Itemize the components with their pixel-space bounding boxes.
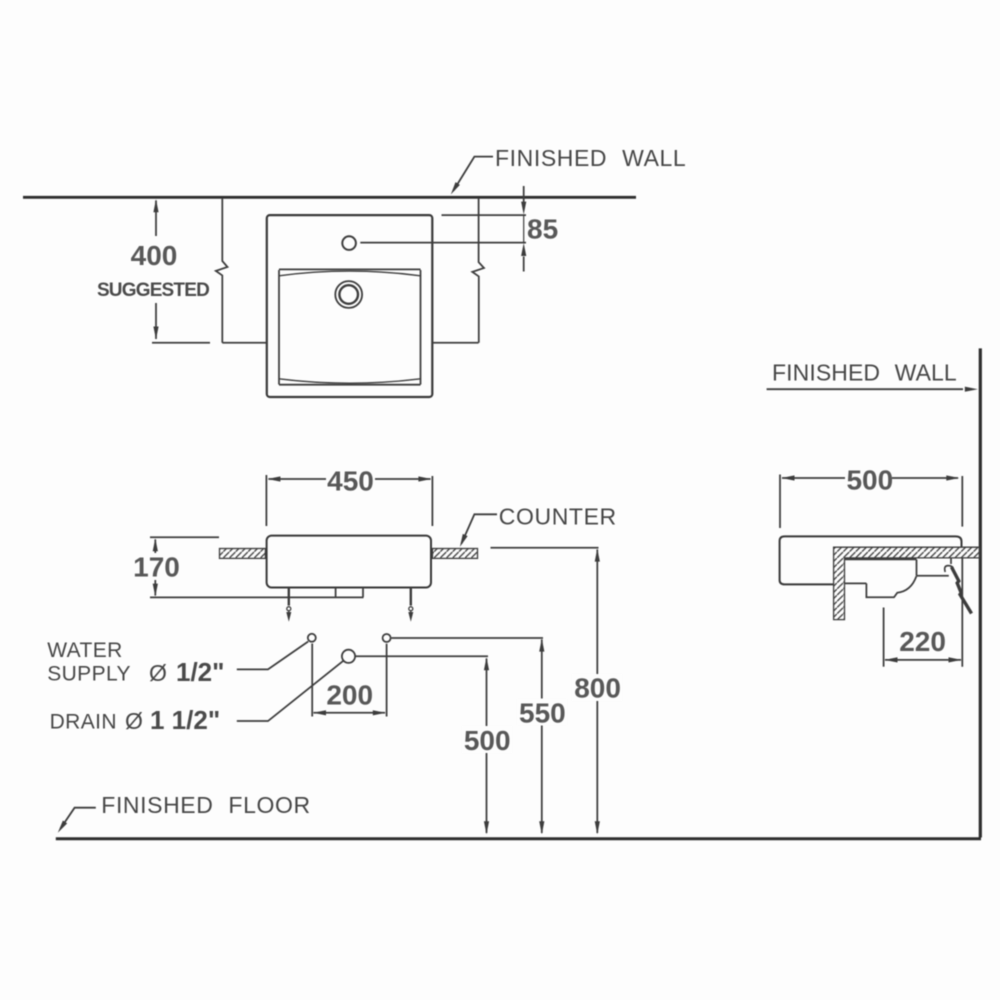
front view: faucet hole bbox=[342, 236, 356, 250]
side view: under-rim line bbox=[845, 558, 917, 560]
svg-text:200: 200 bbox=[326, 680, 373, 711]
dim 400: connector left ext to sink bbox=[222, 342, 266, 344]
dim 450: left extension line bbox=[265, 475, 267, 526]
front view: basin right edge bbox=[420, 270, 422, 385]
svg-text:FINISHED FLOOR: FINISHED FLOOR bbox=[101, 792, 310, 818]
dim 400: right extension line with break bbox=[472, 199, 484, 343]
front view: drain outer ring bbox=[335, 281, 362, 308]
dim 400: bottom terminator line bbox=[152, 342, 210, 344]
front view: sink outer body bbox=[267, 215, 433, 397]
finished wall line (right, side view) bbox=[979, 348, 982, 837]
underline leader with arrow (right wall) bbox=[767, 388, 963, 390]
drain hole bbox=[342, 650, 355, 663]
svg-text:800: 800 bbox=[574, 673, 621, 704]
leader to counter bbox=[462, 514, 498, 543]
leader to finished floor bbox=[61, 808, 96, 829]
side view: line to overflow hook bbox=[917, 575, 949, 577]
dim 85: leader from faucet hole bbox=[360, 242, 526, 244]
leader to finished wall (top) bbox=[454, 157, 494, 191]
side view: mounting bolt left bbox=[288, 588, 290, 606]
side view: drain trap outline bbox=[866, 576, 916, 597]
svg-text:500: 500 bbox=[846, 465, 893, 496]
dim 500 (side): right extension line bbox=[961, 476, 963, 527]
dim 220: right extension line bbox=[961, 559, 963, 667]
water supply hole left bbox=[308, 634, 316, 642]
side view: chain/hose zigzag bbox=[952, 567, 972, 614]
front view: drain inner ring bbox=[339, 285, 358, 304]
svg-text:SUPPLY: SUPPLY bbox=[47, 663, 131, 686]
dim 200: dimension line with arrows bbox=[314, 712, 386, 714]
side view: hook at wall bbox=[945, 558, 953, 572]
leader drain bbox=[237, 661, 343, 721]
svg-text:500: 500 bbox=[464, 725, 511, 756]
svg-text:WATER: WATER bbox=[47, 639, 123, 662]
front view: basin bottom inner curve bbox=[279, 379, 421, 383]
dim 85: extension from sink top bbox=[442, 214, 527, 216]
svg-text:550: 550 bbox=[519, 698, 566, 729]
dim 450: dimension line with arrows bbox=[269, 478, 327, 480]
svg-text:FINISHED WALL: FINISHED WALL bbox=[772, 360, 957, 386]
dim 170: dimension line with arrows bbox=[154, 540, 156, 554]
finished wall line (top, front view) bbox=[23, 196, 636, 199]
dim 500: vertical dimension line bbox=[486, 659, 488, 834]
counter hatch right bbox=[433, 549, 478, 559]
dim 400: dimension line with arrows bbox=[155, 201, 157, 237]
leader from counter to 800 line bbox=[491, 547, 599, 549]
dim 170: top extension line bbox=[150, 536, 219, 538]
svg-text:COUNTER: COUNTER bbox=[499, 504, 617, 530]
leader water supply bbox=[237, 642, 308, 670]
dim 550: vertical dimension line bbox=[541, 640, 543, 834]
svg-text:SUGGESTED: SUGGESTED bbox=[97, 280, 209, 301]
front view: basin left edge bbox=[278, 270, 280, 385]
dim 170: bottom extension line bbox=[150, 596, 364, 598]
leader from right supply hole to 550 line bbox=[391, 637, 543, 639]
front view: basin top inner curve bbox=[279, 271, 421, 276]
svg-text:1/2": 1/2" bbox=[176, 657, 224, 687]
front view: basin top edge bbox=[279, 268, 421, 270]
dim 220: dimension line with arrows bbox=[885, 659, 961, 661]
front view: basin bottom edge bbox=[279, 384, 421, 386]
dim 85: dimension line and arrows bbox=[523, 186, 525, 202]
svg-text:Ø: Ø bbox=[125, 708, 143, 734]
dim 450: right extension line bbox=[431, 476, 433, 526]
side view: bowl right edge bbox=[916, 559, 918, 575]
counter hatch left bbox=[220, 549, 266, 559]
dim 200: left extension line bbox=[311, 644, 313, 717]
svg-text:170: 170 bbox=[133, 552, 180, 583]
svg-text:220: 220 bbox=[899, 626, 946, 657]
side view: mounting bolt right bbox=[410, 588, 412, 606]
side view: sink body bbox=[267, 536, 431, 588]
dim 400: connector sink to right ext bbox=[432, 342, 478, 344]
svg-text:85: 85 bbox=[527, 214, 558, 245]
water supply hole right bbox=[383, 634, 391, 642]
side view: sink profile top and left bbox=[780, 536, 962, 584]
dim 220: left extension line bbox=[883, 608, 885, 667]
dim 500 (side): dimension line with arrows bbox=[782, 477, 845, 479]
side view: drain box right edge bbox=[362, 588, 364, 598]
dim 200: right extension line bbox=[386, 644, 388, 717]
side view: drain box left edge bbox=[335, 588, 337, 598]
svg-text:Ø: Ø bbox=[149, 660, 167, 686]
dim 400: left extension line with break bbox=[216, 199, 228, 343]
svg-text:DRAIN: DRAIN bbox=[50, 711, 117, 734]
svg-text:FINISHED WALL: FINISHED WALL bbox=[495, 145, 686, 171]
svg-text:1 1/2": 1 1/2" bbox=[150, 705, 220, 735]
dim 800: vertical dimension line bbox=[596, 550, 598, 834]
svg-text:400: 400 bbox=[131, 240, 178, 271]
finished floor line bbox=[56, 837, 981, 840]
dim 500 (side): left extension line bbox=[779, 475, 781, 529]
counter cross-section (hatched L-shape) bbox=[834, 547, 980, 619]
leader from drain hole to 500 line bbox=[355, 655, 488, 657]
side view: sink underside bbox=[845, 582, 867, 584]
svg-text:450: 450 bbox=[327, 466, 374, 497]
